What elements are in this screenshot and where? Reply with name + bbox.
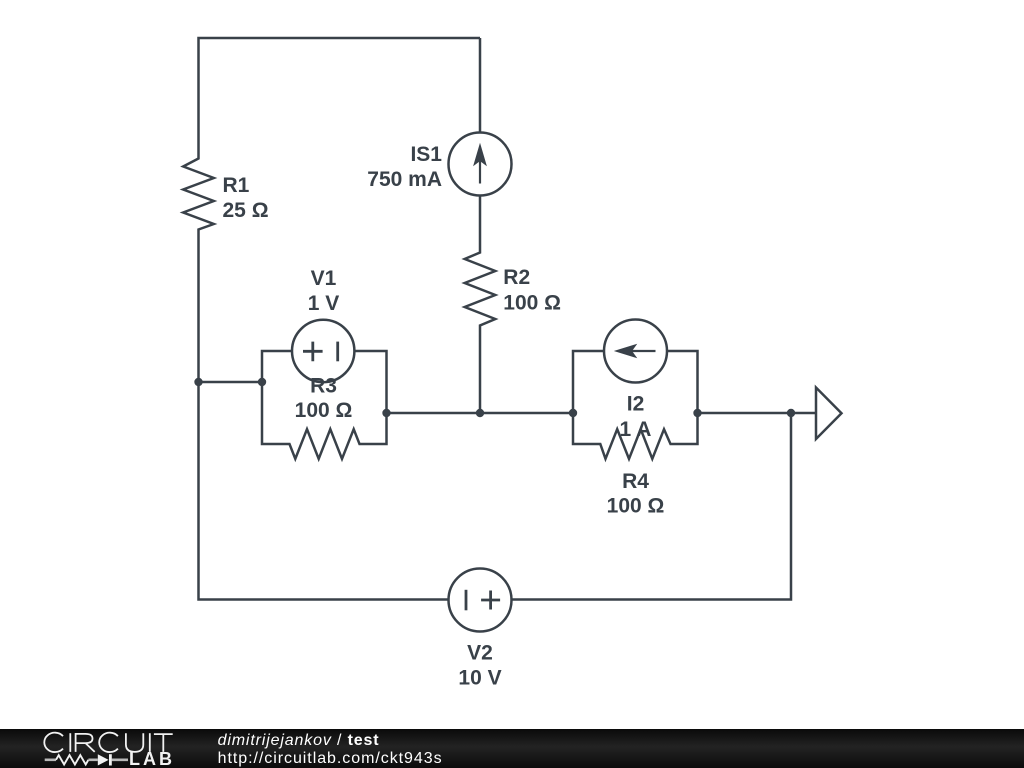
V1 minus bar: [336, 342, 339, 362]
logo CIRCUIT wordmark (hand-drawn thin geometric letters): [44, 733, 172, 752]
voltage source V2 circle: [449, 569, 512, 632]
svg-text:25 Ω: 25 Ω: [223, 199, 269, 222]
svg-text:1 V: 1 V: [308, 292, 340, 315]
wire: IS1 top stem: [479, 38, 482, 133]
svg-text:I2: I2: [627, 393, 645, 416]
wire: right node wire to output: [698, 412, 816, 415]
wire: bottom-right rail up to node: [512, 413, 792, 600]
logo diode triangle: [98, 754, 109, 765]
svg-text:100 Ω: 100 Ω: [607, 495, 665, 518]
wire: top rail + left rail with R1 + bottom-left rail: [183, 38, 480, 600]
IS1 arrow (up): [474, 145, 486, 184]
svg-text:R1: R1: [223, 174, 250, 197]
V2 plus sign: [481, 591, 500, 610]
svg-text:dimitrijejankov / test: dimitrijejankov / test: [218, 732, 380, 749]
I2 arrow (left): [616, 345, 656, 358]
svg-text:http://circuitlab.com/ckt943s: http://circuitlab.com/ckt943s: [218, 750, 443, 767]
wire: V1/R3 parallel box with resistor R3 zigzag: [262, 351, 387, 459]
node dot (I2 box right): [693, 409, 701, 417]
wire: I2/R4 parallel box with resistor R4 zigzag: [573, 351, 698, 459]
svg-text:V2: V2: [467, 642, 493, 665]
svg-text:IS1: IS1: [410, 143, 442, 166]
svg-text:LAB: LAB: [129, 749, 175, 768]
svg-text:100 Ω: 100 Ω: [295, 399, 353, 422]
node dot (I2 box left): [569, 409, 577, 417]
wire: IS1 to R2 to center node: [465, 196, 496, 414]
logo resistor-diode line: [45, 755, 128, 764]
svg-text:750 mA: 750 mA: [367, 168, 442, 191]
voltage source V1 circle: [292, 320, 354, 382]
node dot (V1 box right): [382, 409, 390, 417]
node dot (left rail / stub): [194, 378, 202, 386]
node dot (center, R2 bottom): [476, 409, 484, 417]
node dot (stub / V1 box): [258, 378, 266, 386]
logo diode cathode bar: [109, 754, 112, 765]
svg-text:R2: R2: [503, 266, 530, 289]
svg-text:1 A: 1 A: [620, 418, 652, 441]
V1 plus sign: [303, 342, 323, 362]
footer bar: [0, 729, 1024, 768]
svg-text:R3: R3: [310, 375, 337, 398]
node dot (output branch): [787, 409, 795, 417]
wire: center node wire: [387, 412, 574, 415]
current source I2 circle: [604, 320, 667, 383]
svg-text:100 Ω: 100 Ω: [503, 292, 561, 315]
svg-text:R4: R4: [622, 470, 649, 493]
svg-text:10 V: 10 V: [458, 667, 501, 690]
svg-text:V1: V1: [311, 267, 337, 290]
output pin triangle: [816, 388, 842, 440]
wire: left stub to V1 box: [199, 381, 263, 384]
current source IS1 circle: [449, 133, 512, 196]
V2 minus bar: [465, 590, 468, 611]
